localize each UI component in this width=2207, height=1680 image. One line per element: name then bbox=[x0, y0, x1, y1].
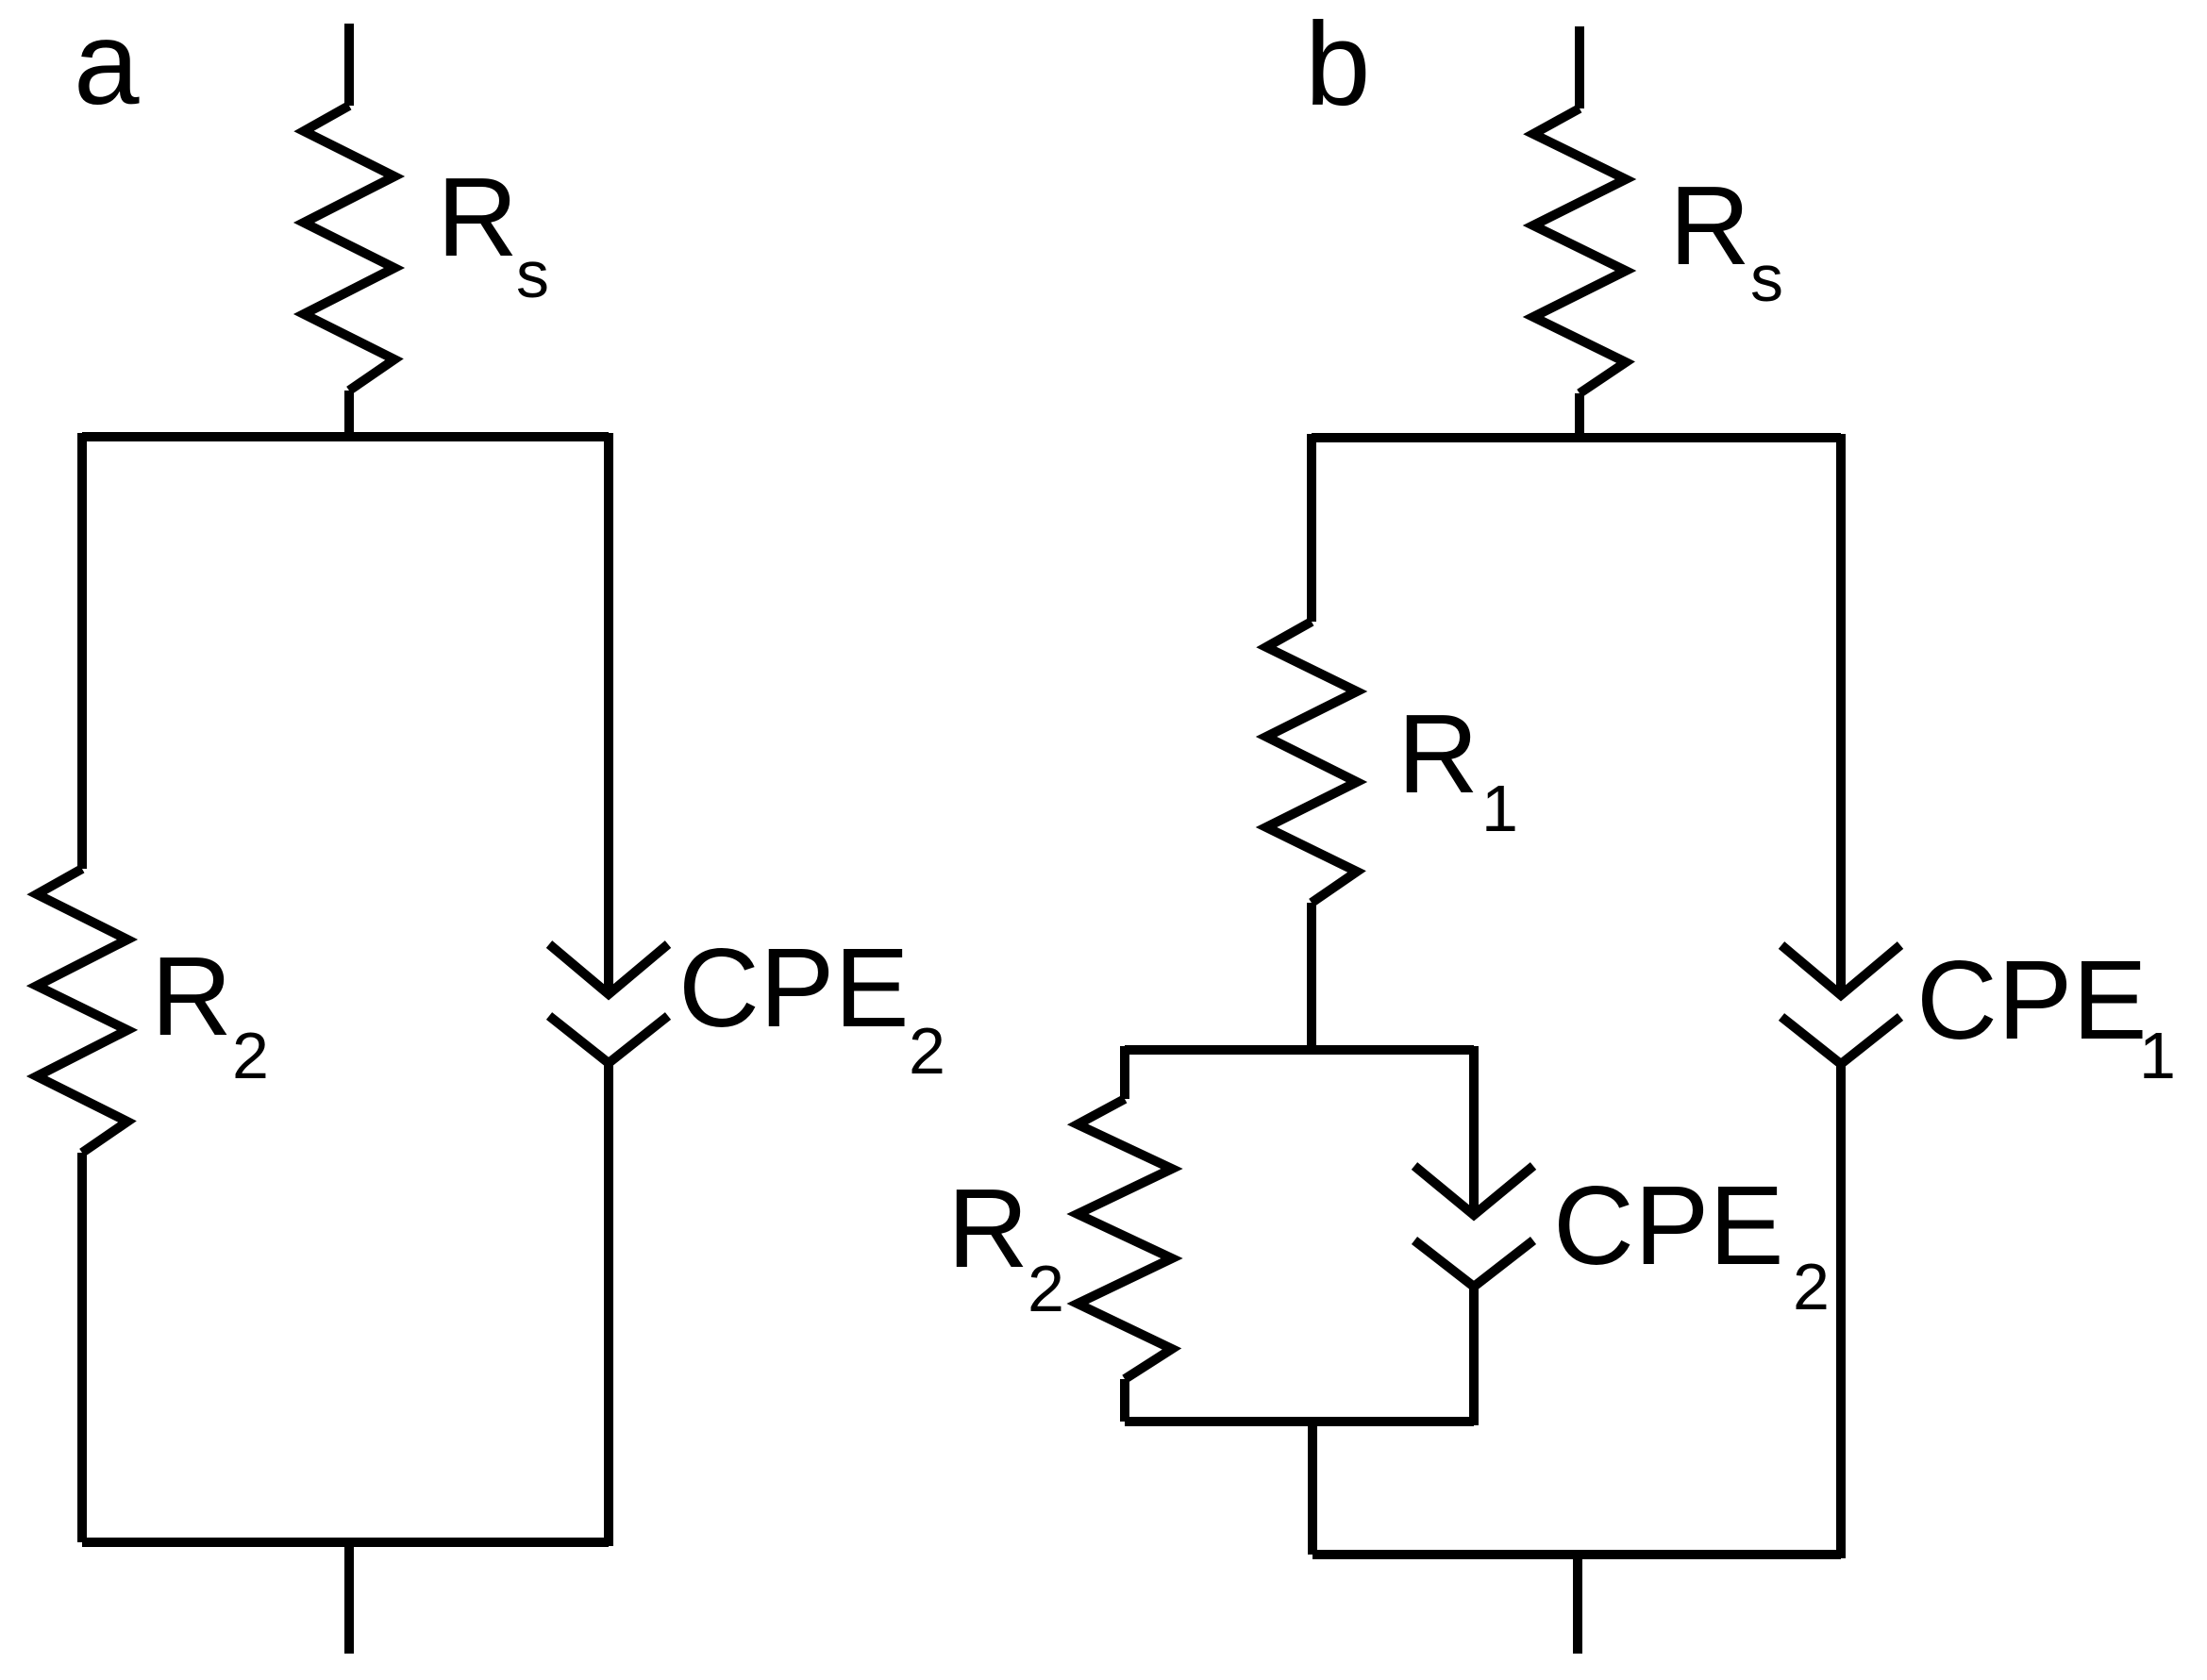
wire inner node to bottom node (panel b) bbox=[1308, 1422, 1317, 1555]
svg-text:R: R bbox=[1397, 691, 1479, 817]
inner node bottom junction wire (panel b) bbox=[1125, 1417, 1474, 1426]
svg-text:1: 1 bbox=[2139, 1019, 2176, 1092]
svg-text:s: s bbox=[516, 238, 549, 311]
wire inner right branch upper (panel b) bbox=[1469, 1046, 1479, 1215]
svg-text:R: R bbox=[1669, 163, 1750, 289]
wire bottom terminal (panel b) bbox=[1573, 1555, 1582, 1654]
node top junction wire (panel a) bbox=[82, 432, 609, 441]
svg-text:R: R bbox=[437, 155, 518, 280]
wire Rs to top node (panel a) bbox=[344, 391, 354, 437]
resistor Rs (panel b) bbox=[1533, 108, 1626, 393]
svg-text:2: 2 bbox=[1028, 1252, 1064, 1325]
svg-text:2: 2 bbox=[1793, 1250, 1830, 1323]
resistor R2 (panel b) bbox=[1078, 1099, 1172, 1379]
wire right branch upper (panel a) bbox=[604, 433, 613, 994]
wire right branch lower (panel a) bbox=[604, 1063, 613, 1546]
CPE2 lower chevron (panel b) bbox=[1414, 1240, 1533, 1287]
wire inner left branch lower (panel b) bbox=[1120, 1379, 1129, 1422]
resistor Rs (panel a) bbox=[304, 106, 394, 391]
svg-text:b: b bbox=[1305, 0, 1371, 130]
svg-text:s: s bbox=[1750, 241, 1783, 315]
wire top terminal (panel b) bbox=[1575, 26, 1584, 108]
wire outer right branch lower (panel b) bbox=[1836, 1064, 1846, 1558]
svg-text:CPE: CPE bbox=[678, 925, 910, 1051]
inner node top junction wire (panel b) bbox=[1125, 1045, 1474, 1055]
CPE1 upper chevron (panel b) bbox=[1781, 945, 1900, 995]
wire inner right branch lower (panel b) bbox=[1469, 1287, 1479, 1425]
svg-text:R: R bbox=[151, 934, 232, 1059]
svg-text:R: R bbox=[947, 1166, 1028, 1291]
CPE2 upper chevron (panel b) bbox=[1414, 1166, 1533, 1215]
wire inner left branch upper (panel b) bbox=[1120, 1046, 1129, 1099]
node bottom junction wire (panel b) bbox=[1312, 1550, 1841, 1559]
CPE1 lower chevron (panel b) bbox=[1781, 1017, 1900, 1064]
resistor R1 (panel b) bbox=[1266, 622, 1357, 903]
wire R1 to inner node (panel b) bbox=[1307, 903, 1316, 1050]
svg-text:CPE: CPE bbox=[1916, 938, 2148, 1063]
svg-text:1: 1 bbox=[1481, 772, 1518, 845]
resistor R2 (panel a) bbox=[37, 869, 127, 1153]
node bottom junction wire (panel a) bbox=[82, 1538, 609, 1547]
svg-text:2: 2 bbox=[232, 1019, 269, 1092]
wire bottom terminal (panel a) bbox=[344, 1542, 354, 1654]
svg-text:a: a bbox=[74, 0, 140, 129]
svg-text:2: 2 bbox=[909, 1014, 945, 1088]
node top junction wire (panel b) bbox=[1312, 433, 1841, 442]
svg-text:CPE: CPE bbox=[1553, 1163, 1784, 1289]
wire left branch to R1 (panel b) bbox=[1307, 434, 1316, 622]
CPE2 upper chevron (panel a) bbox=[549, 944, 668, 994]
wire outer right branch upper (panel b) bbox=[1836, 434, 1846, 995]
wire left branch upper (panel a) bbox=[77, 433, 87, 869]
wire Rs to top node (panel b) bbox=[1575, 393, 1584, 438]
wire left branch lower (panel a) bbox=[77, 1153, 87, 1542]
CPE2 lower chevron (panel a) bbox=[549, 1016, 668, 1063]
wire top terminal (panel a) bbox=[344, 24, 354, 106]
